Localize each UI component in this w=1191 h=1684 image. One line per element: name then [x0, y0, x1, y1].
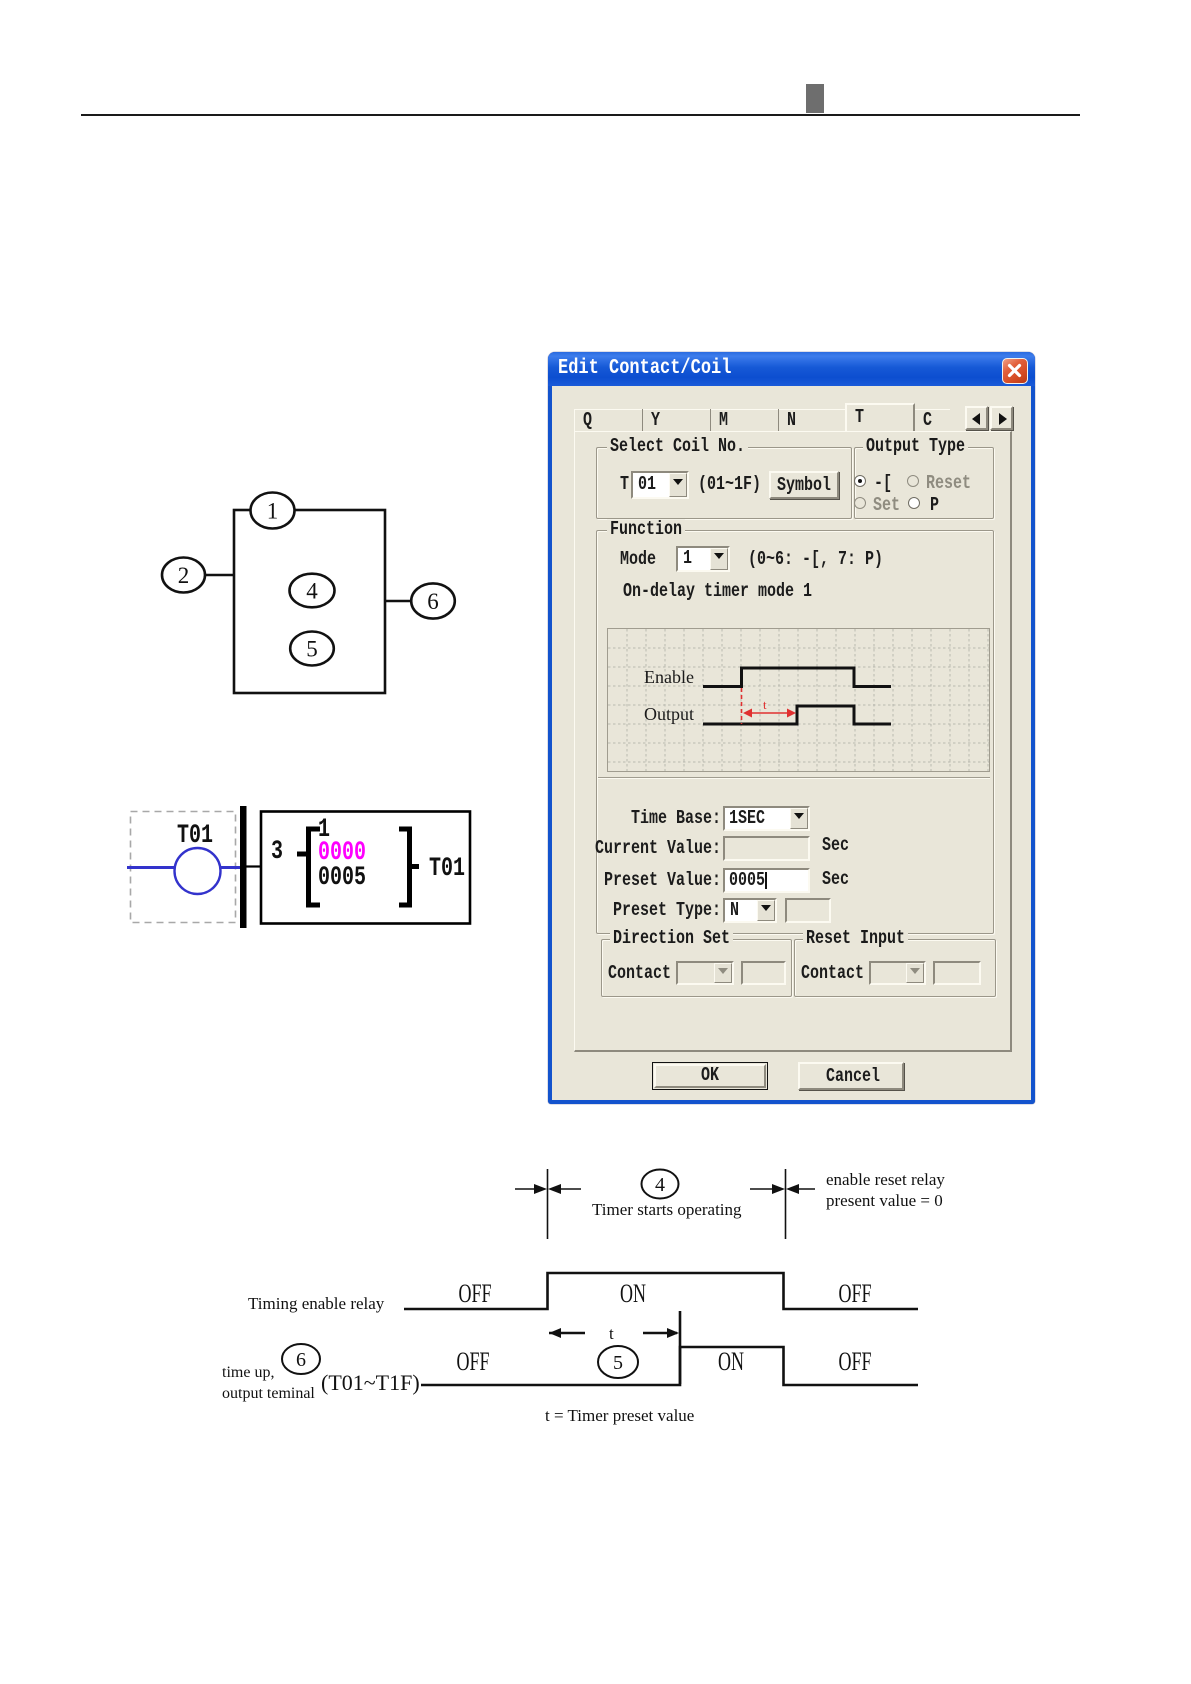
svg-text:time up,: time up,	[222, 1364, 274, 1381]
svg-text:Timing enable relay: Timing enable relay	[248, 1294, 385, 1313]
svg-text:T01: T01	[177, 820, 213, 851]
svg-text:6: 6	[296, 1349, 306, 1371]
svg-text:t = Timer preset value: t = Timer preset value	[545, 1406, 694, 1425]
svg-text:T01: T01	[429, 853, 465, 884]
svg-text:3: 3	[271, 836, 283, 867]
svg-text:t: t	[763, 697, 767, 712]
svg-text:0005: 0005	[318, 862, 366, 893]
svg-text:ON: ON	[620, 1279, 646, 1308]
svg-text:5: 5	[613, 1352, 623, 1374]
svg-text:5: 5	[306, 637, 318, 662]
svg-text:ON: ON	[718, 1347, 744, 1376]
svg-text:4: 4	[655, 1174, 665, 1196]
svg-text:output teminal: output teminal	[222, 1385, 315, 1402]
svg-text:4: 4	[306, 579, 318, 604]
svg-text:2: 2	[178, 563, 190, 588]
svg-text:1: 1	[267, 499, 279, 524]
svg-text:OFF: OFF	[456, 1347, 489, 1376]
svg-text:(T01~T1F): (T01~T1F)	[321, 1370, 420, 1395]
svg-text:present value = 0: present value = 0	[826, 1191, 943, 1210]
svg-text:enable reset relay: enable reset relay	[826, 1170, 945, 1189]
svg-text:t: t	[609, 1324, 614, 1343]
svg-text:OFF: OFF	[458, 1279, 491, 1308]
svg-text:Timer starts operating: Timer starts operating	[592, 1200, 742, 1219]
svg-text:6: 6	[427, 589, 439, 614]
svg-text:OFF: OFF	[838, 1347, 871, 1376]
svg-text:OFF: OFF	[838, 1279, 871, 1308]
